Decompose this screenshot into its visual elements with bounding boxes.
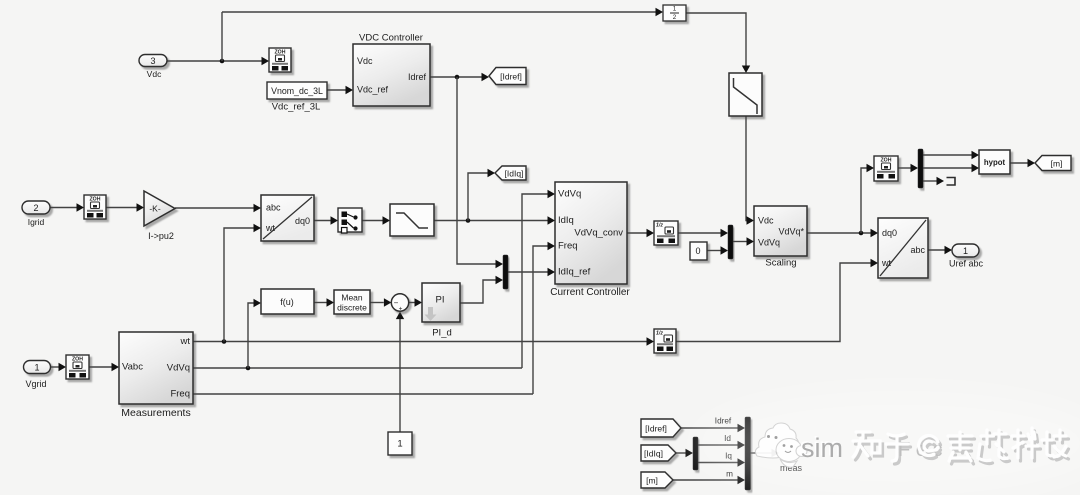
svg-text:Measurements: Measurements [121, 407, 190, 419]
svg-text:VdVq: VdVq [758, 238, 780, 248]
svg-text:[m]: [m] [1051, 159, 1063, 169]
svg-text:PI_d: PI_d [432, 328, 452, 339]
svg-text:VdVq_conv: VdVq_conv [574, 228, 623, 239]
svg-text:wt: wt [265, 223, 275, 233]
svg-text:Current Controller: Current Controller [550, 287, 630, 298]
svg-text:[IdIq]: [IdIq] [644, 449, 663, 459]
svg-text:sim: sim [801, 433, 843, 463]
svg-text:Vgrid: Vgrid [25, 379, 46, 389]
svg-text:Uref abc: Uref abc [949, 259, 984, 269]
svg-text:abc: abc [910, 245, 925, 255]
svg-text:[IdIq]: [IdIq] [505, 169, 524, 179]
svg-text:1/z: 1/z [656, 331, 663, 337]
svg-text:[Idref]: [Idref] [645, 424, 667, 434]
svg-text:1: 1 [673, 6, 677, 13]
svg-text:1: 1 [397, 439, 402, 450]
svg-text:wt: wt [881, 258, 891, 268]
svg-text:2: 2 [33, 203, 38, 213]
svg-text:[Idref]: [Idref] [500, 72, 522, 82]
svg-text:Freq: Freq [170, 389, 190, 400]
svg-text:discrete: discrete [337, 303, 367, 313]
svg-text:-K-: -K- [149, 204, 161, 214]
svg-text:dq0: dq0 [882, 228, 897, 238]
svg-text:IdIq_ref: IdIq_ref [558, 267, 591, 278]
svg-text:3: 3 [150, 56, 155, 66]
svg-text:f(u): f(u) [280, 297, 294, 307]
svg-text:Scaling: Scaling [765, 258, 796, 269]
svg-text:Vnom_dc_3L: Vnom_dc_3L [271, 86, 323, 96]
svg-text:0: 0 [695, 246, 700, 256]
svg-text:1: 1 [34, 363, 39, 373]
svg-text:1: 1 [963, 246, 968, 256]
svg-text:hypot: hypot [984, 158, 1006, 167]
svg-text:+: + [399, 306, 403, 313]
svg-text:Idref: Idref [408, 72, 427, 82]
svg-text:Vabc: Vabc [122, 362, 143, 373]
svg-text:1/z: 1/z [656, 223, 663, 229]
svg-text:VDC Controller: VDC Controller [359, 33, 423, 44]
svg-text:Vdc: Vdc [147, 69, 162, 79]
svg-text:Freq: Freq [558, 241, 578, 252]
svg-text:VdVq: VdVq [558, 189, 581, 200]
svg-text:[m]: [m] [646, 476, 658, 486]
svg-text:Vdc: Vdc [357, 56, 373, 66]
svg-text:wt: wt [180, 336, 191, 347]
svg-text:Vdc_ref: Vdc_ref [357, 85, 389, 95]
svg-text:Vdc_ref_3L: Vdc_ref_3L [272, 102, 321, 113]
svg-text:Igrid: Igrid [28, 217, 45, 227]
svg-text:VdVq: VdVq [167, 363, 190, 374]
svg-text:IdIq: IdIq [558, 215, 574, 226]
svg-text:I->pu2: I->pu2 [148, 231, 174, 241]
svg-text:PI: PI [436, 295, 445, 306]
svg-text:VdVq*: VdVq* [778, 227, 804, 237]
svg-text:dq0: dq0 [295, 216, 310, 226]
svg-text:Vdc: Vdc [758, 216, 774, 226]
svg-text:abc: abc [266, 203, 281, 213]
svg-text:Mean: Mean [341, 293, 363, 303]
svg-text:2: 2 [673, 14, 677, 21]
